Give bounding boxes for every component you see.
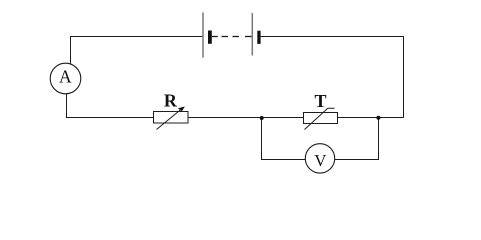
svg-text:V: V	[314, 151, 327, 170]
svg-text:T: T	[314, 91, 326, 111]
svg-text:R: R	[164, 91, 178, 111]
svg-text:A: A	[59, 66, 72, 86]
